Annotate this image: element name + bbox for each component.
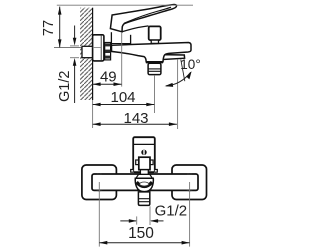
svg-text:143: 143 xyxy=(123,110,148,127)
svg-text:49: 49 xyxy=(100,68,117,85)
svg-text:10°: 10° xyxy=(180,57,200,72)
svg-text:G1/2: G1/2 xyxy=(57,71,73,102)
svg-text:104: 104 xyxy=(110,89,135,106)
svg-text:150: 150 xyxy=(128,225,154,242)
svg-text:G1/2: G1/2 xyxy=(155,203,188,220)
svg-text:77: 77 xyxy=(41,20,57,36)
